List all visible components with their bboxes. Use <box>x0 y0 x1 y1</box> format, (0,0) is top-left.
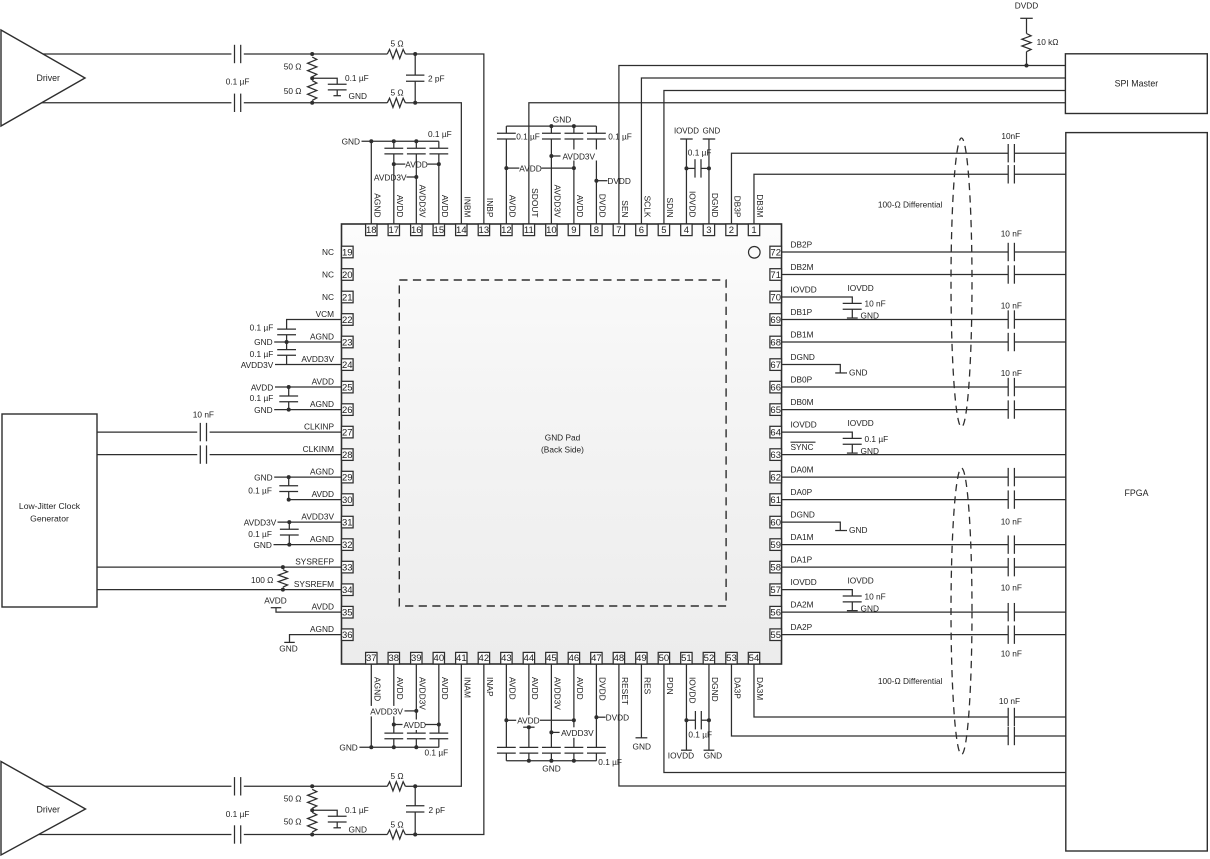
capacitor 10nF CLKINP <box>199 423 201 441</box>
svg-text:0.1 µF: 0.1 µF <box>608 132 632 142</box>
node INA mid <box>310 808 314 812</box>
capacitor 10nF DA1P <box>1007 558 1009 576</box>
capacitor 10nF DA0M <box>1007 468 1009 486</box>
capacitor 10nF DA1M <box>1007 535 1009 553</box>
svg-text:27: 27 <box>342 427 353 438</box>
svg-text:AVDD: AVDD <box>264 596 286 606</box>
pin 34 box <box>342 584 354 596</box>
pin 12 box <box>501 224 512 236</box>
pin 1 box <box>748 224 759 236</box>
pin 50 box <box>658 652 669 664</box>
wire resistor to DVDD <box>1026 18 1028 33</box>
svg-text:NC: NC <box>322 292 334 302</box>
resistor 5ohm INB- <box>387 98 405 107</box>
wire DGND pin to ground <box>782 522 841 530</box>
wire cap17 to AVDD rail <box>393 154 395 164</box>
svg-text:GND: GND <box>703 127 721 136</box>
svg-text:DB2P: DB2P <box>791 239 813 249</box>
svg-text:DVDD: DVDD <box>598 677 608 701</box>
node INB- junction <box>310 101 314 105</box>
capacitor 0.1uF pins 25/26 <box>288 387 290 396</box>
svg-text:3: 3 <box>706 225 711 236</box>
wire INB+ to 2pF node <box>405 53 415 55</box>
wire cap9 down <box>573 139 575 168</box>
wire pin47 DVDD <box>595 664 597 747</box>
svg-text:50 Ω: 50 Ω <box>284 86 302 96</box>
svg-text:GND: GND <box>861 446 879 456</box>
ground (IOVDD decap) <box>847 610 858 612</box>
capacitor 10nF DA2M <box>1007 603 1009 621</box>
svg-text:0.1 µF: 0.1 µF <box>688 730 712 740</box>
wire DGND pin to ground <box>782 365 841 373</box>
capacitor 10 nF IOVDD decoupling <box>843 595 862 597</box>
node SEN pullup junction <box>1025 64 1029 68</box>
svg-text:66: 66 <box>770 382 781 393</box>
svg-text:10 kΩ: 10 kΩ <box>1037 37 1059 47</box>
svg-text:DB1M: DB1M <box>791 329 814 339</box>
wire SCLK to SPI master <box>641 78 1065 224</box>
capacitor 10nF DA3M <box>1007 708 1009 726</box>
wire SDOUT to SPI master <box>529 103 1066 224</box>
svg-text:GND: GND <box>633 741 651 751</box>
ground (RES) <box>636 737 648 739</box>
wire cap to ground <box>851 309 853 318</box>
pin 8 box <box>591 224 602 236</box>
capacitor 10nF DB3M <box>1007 165 1009 183</box>
wire pin8 DVDD <box>595 181 597 224</box>
svg-text:10 nF: 10 nF <box>193 409 214 419</box>
wire pin3 DGND <box>708 139 710 224</box>
node INB mid <box>310 76 314 80</box>
svg-text:14: 14 <box>456 225 467 236</box>
svg-text:DA3M: DA3M <box>755 677 765 700</box>
svg-text:2: 2 <box>729 225 734 236</box>
pin 38 box <box>388 652 399 664</box>
pin 10 box <box>546 224 557 236</box>
pin 21 box <box>342 291 354 303</box>
resistor 5ohm INA+ <box>387 782 405 791</box>
svg-text:10 nF: 10 nF <box>1001 648 1022 658</box>
svg-text:2 pF: 2 pF <box>428 73 445 83</box>
svg-text:72: 72 <box>770 247 781 258</box>
power IOVDD tap (top) <box>680 138 693 140</box>
capacitor 0.1uF series INB- <box>234 94 236 112</box>
pin 18 box <box>366 224 377 236</box>
svg-text:51: 51 <box>681 653 692 664</box>
svg-text:55: 55 <box>770 630 781 641</box>
svg-text:64: 64 <box>770 427 781 438</box>
pin 37 box <box>366 652 377 664</box>
wire INA+ to 2pF node <box>405 785 415 787</box>
pin 20 box <box>342 269 354 281</box>
wire INA- to 2pF node <box>405 834 415 836</box>
wire DA3M pin54 to FPGA <box>754 664 1008 717</box>
wire cap to ground (INA) <box>336 822 338 828</box>
capacitor 0.1uF series INA+ <box>234 777 236 795</box>
net AVDD3V tap (bottom-middle) <box>549 730 553 734</box>
wire CLKINP from clock gen <box>97 431 197 433</box>
svg-text:DB1P: DB1P <box>791 307 813 317</box>
svg-text:59: 59 <box>770 540 781 551</box>
svg-text:100-Ω Differential: 100-Ω Differential <box>878 200 943 210</box>
svg-text:10 nF: 10 nF <box>999 696 1020 706</box>
pin 2 box <box>726 224 737 236</box>
wire cap to FPGA <box>1014 409 1065 411</box>
svg-text:47: 47 <box>591 653 602 664</box>
wire pin12 AVDD <box>505 168 507 224</box>
pin 29 box <box>342 471 354 483</box>
svg-text:IOVDD: IOVDD <box>848 575 874 585</box>
differential pair ellipse (upper) <box>951 138 972 427</box>
capacitor 10nF DA3P <box>1007 727 1009 745</box>
svg-text:GND: GND <box>861 311 879 321</box>
node 2pF top (INA) <box>413 784 417 788</box>
net AVDD3V rail (bottom-left) <box>370 706 404 717</box>
svg-text:Driver: Driver <box>37 73 61 83</box>
capacitor 0.1uF AVDD3V (pin24 group) <box>286 342 288 350</box>
svg-text:NC: NC <box>322 247 334 257</box>
svg-text:62: 62 <box>770 473 781 484</box>
capacitor 10nF DB0P <box>1007 378 1009 396</box>
wire DB3P pin2 to FPGA <box>731 153 1008 224</box>
svg-text:100 Ω: 100 Ω <box>251 575 273 585</box>
svg-text:DA2M: DA2M <box>791 600 814 610</box>
svg-text:DA1M: DA1M <box>791 532 814 542</box>
op-amp driver (top input driver) <box>1 30 85 126</box>
net AVDD3V tap (top-middle) <box>549 154 553 158</box>
svg-text:INBP: INBP <box>485 198 495 218</box>
svg-text:52: 52 <box>704 653 715 664</box>
wire IOVDD pin to cap <box>782 590 853 596</box>
svg-text:GND: GND <box>342 136 360 146</box>
junction SYSREFM-100ohm <box>281 588 285 592</box>
pin 13 box <box>478 224 489 236</box>
junction AVDD3V cap (pin31) <box>287 520 291 524</box>
wire DB2M pin71 to FPGA <box>782 274 1009 276</box>
wire INA- from driver <box>39 834 231 836</box>
wire INAM to pin 41 <box>415 664 461 786</box>
pin 4 box <box>681 224 692 236</box>
svg-text:AGND: AGND <box>310 624 334 634</box>
wire cap16 to AVDD3V node <box>415 154 417 177</box>
capacitor 0.1uF on AVDD pin17 <box>384 147 403 149</box>
svg-text:36: 36 <box>342 630 353 641</box>
wire DB3P cap to FPGA <box>1014 152 1065 154</box>
wire CLKINP to pin 27 <box>210 431 342 433</box>
wire cap to FPGA <box>1014 634 1065 636</box>
svg-text:10nF: 10nF <box>1001 131 1020 141</box>
svg-text:SDOUT: SDOUT <box>530 188 540 217</box>
svg-text:70: 70 <box>770 292 781 303</box>
svg-text:68: 68 <box>770 337 781 348</box>
svg-text:IOVDD: IOVDD <box>791 577 817 587</box>
capacitor 0.1uF on pin9 AVDD <box>564 132 583 134</box>
node 2pF bottom (INA) <box>413 833 417 837</box>
svg-text:43: 43 <box>501 653 512 664</box>
wire INB- from driver <box>42 102 232 104</box>
wire PDN pin50 to FPGA <box>664 664 1066 773</box>
net AVDD rail (top-left) <box>392 162 396 166</box>
net DVDD tap (bottom-middle) <box>594 715 598 719</box>
svg-text:50 Ω: 50 Ω <box>284 816 302 826</box>
node INA+ junction <box>310 784 314 788</box>
svg-text:DB3P: DB3P <box>733 196 743 218</box>
svg-text:INAP: INAP <box>485 677 495 697</box>
svg-text:23: 23 <box>342 337 353 348</box>
capacitor 10nF DB2P <box>1007 243 1009 261</box>
svg-text:DGND: DGND <box>791 352 815 362</box>
svg-text:AGND: AGND <box>310 467 334 477</box>
wire pin37 AGND <box>370 664 372 747</box>
svg-text:AVDD: AVDD <box>440 677 450 700</box>
svg-text:0.1 µF: 0.1 µF <box>250 349 274 359</box>
svg-text:GND: GND <box>553 115 571 125</box>
wire pin43 AVDD <box>505 664 507 747</box>
junction cap16 top <box>414 139 418 143</box>
svg-text:10 nF: 10 nF <box>1001 368 1022 378</box>
pin 59 box <box>770 539 782 551</box>
svg-text:50 Ω: 50 Ω <box>284 62 302 72</box>
svg-text:10 nF: 10 nF <box>1001 516 1022 526</box>
wire pin 30 AVDD <box>289 499 342 501</box>
pin 58 box <box>770 561 782 573</box>
GND pad (back side) outline <box>399 280 726 606</box>
pin 49 box <box>636 652 647 664</box>
svg-text:IOVDD: IOVDD <box>674 127 699 136</box>
net DVDD tap (top-middle) <box>594 179 598 183</box>
node INA- junction <box>310 833 314 837</box>
svg-text:5 Ω: 5 Ω <box>390 39 403 49</box>
svg-text:Low-Jitter Clock: Low-Jitter Clock <box>19 501 81 511</box>
wire DA2M pin56 to FPGA <box>782 611 1009 613</box>
capacitor 0.1uF INA mid to GND <box>328 815 347 817</box>
svg-text:38: 38 <box>389 653 400 664</box>
junction cap9 top <box>572 124 576 128</box>
svg-text:63: 63 <box>770 450 781 461</box>
svg-text:AVDD3V: AVDD3V <box>370 706 403 716</box>
svg-text:AVDD3V: AVDD3V <box>553 185 563 218</box>
resistor 5ohm INB+ <box>387 49 405 58</box>
svg-text:GND Pad: GND Pad <box>545 433 581 443</box>
ground (INB mid) <box>333 95 341 97</box>
svg-text:AVDD: AVDD <box>575 677 585 700</box>
capacitor 2pF (INA) <box>414 786 416 806</box>
wire cap8 down <box>595 139 597 181</box>
svg-text:18: 18 <box>366 225 377 236</box>
wire DB2P pin72 to FPGA <box>782 251 1009 253</box>
svg-text:30: 30 <box>342 495 353 506</box>
svg-text:AGND: AGND <box>310 534 334 544</box>
svg-text:0.1 µF: 0.1 µF <box>248 486 272 496</box>
svg-text:19: 19 <box>342 247 353 258</box>
wire cap15 to AVDD rail <box>438 154 440 164</box>
svg-text:AVDD3V: AVDD3V <box>563 151 596 161</box>
wire pin40 AVDD <box>438 664 440 733</box>
pin 28 box <box>342 449 354 461</box>
svg-text:GND: GND <box>849 368 867 378</box>
pin 19 box <box>342 246 354 258</box>
svg-text:71: 71 <box>770 270 781 281</box>
svg-text:GND: GND <box>339 743 357 753</box>
capacitor 10nF DB1P <box>1007 310 1009 328</box>
wire pin9 AVDD <box>573 168 575 224</box>
svg-text:SCLK: SCLK <box>643 196 653 218</box>
svg-text:SEN: SEN <box>620 200 630 217</box>
svg-text:0.1 µF: 0.1 µF <box>516 132 540 142</box>
capacitor 0.1uF on pin8 DVDD <box>587 132 606 134</box>
svg-text:SPI Master: SPI Master <box>1115 79 1159 89</box>
capacitor 0.1uF pin44 <box>519 746 538 748</box>
svg-text:11: 11 <box>524 225 534 236</box>
svg-text:32: 32 <box>342 540 353 551</box>
svg-text:AVDD3V: AVDD3V <box>418 677 428 710</box>
svg-text:SYNC: SYNC <box>791 442 814 452</box>
pin 22 box <box>342 314 354 326</box>
pin 64 box <box>770 426 782 438</box>
wire pin52 DGND <box>708 664 710 750</box>
pin 42 box <box>478 652 489 664</box>
svg-text:AVDD: AVDD <box>312 489 334 499</box>
wire INB- to 50ohm node <box>244 102 387 104</box>
svg-text:AVDD3V: AVDD3V <box>553 677 563 710</box>
svg-text:10 nF: 10 nF <box>1001 582 1022 592</box>
wire VCM pin22 to cap <box>287 320 342 330</box>
wire DA3P cap to FPGA <box>1014 735 1065 737</box>
junction AVDD cap (pin30) <box>287 498 291 502</box>
ground (DGND) <box>835 372 845 374</box>
wire cap39 to GND rail <box>415 739 417 748</box>
wire DA0M pin62 to FPGA <box>782 476 1009 478</box>
pin 25 box <box>342 381 354 393</box>
wire cap to FPGA <box>1014 274 1065 276</box>
wire DA0P pin61 to FPGA <box>782 499 1009 501</box>
wire pullup to resistor <box>1026 52 1028 66</box>
capacitor 0.1uF IOVDD-DGND (top) <box>686 167 695 169</box>
junction cap left (pin4) <box>684 166 688 170</box>
node 2pF top <box>413 52 417 56</box>
svg-text:49: 49 <box>636 653 647 664</box>
pin 1 indicator circle <box>749 247 761 259</box>
pin 3 box <box>703 224 714 236</box>
wire cap to FPGA <box>1014 499 1065 501</box>
svg-text:AVDD: AVDD <box>517 716 539 726</box>
svg-text:9: 9 <box>571 225 576 236</box>
svg-text:Driver: Driver <box>37 805 61 815</box>
net AVDD rail (bottom-left) <box>392 723 396 727</box>
svg-text:AVDD3V: AVDD3V <box>244 518 277 528</box>
svg-text:DB2M: DB2M <box>791 262 814 272</box>
wire mid node to 0.1uF cap (INA) <box>312 810 337 816</box>
wire DA1M pin59 to FPGA <box>782 544 1009 546</box>
wire stub cap17 <box>393 141 395 148</box>
svg-text:1: 1 <box>751 225 756 236</box>
pin 15 box <box>433 224 444 236</box>
svg-text:AVDD3V: AVDD3V <box>374 173 407 183</box>
svg-text:20: 20 <box>342 270 353 281</box>
svg-text:DVDD: DVDD <box>607 176 631 186</box>
capacitor 10nF DA2P <box>1007 625 1009 643</box>
svg-text:12: 12 <box>501 225 512 236</box>
pin 48 box <box>613 652 624 664</box>
resistor 10k pullup <box>1022 34 1031 52</box>
svg-text:40: 40 <box>434 653 445 664</box>
svg-text:2 pF: 2 pF <box>429 805 446 815</box>
wire IOVDD pin to cap <box>782 432 853 438</box>
pin 67 box <box>770 359 782 371</box>
svg-text:GND: GND <box>349 824 367 834</box>
ground GND tap (top) <box>703 138 716 140</box>
svg-text:AVDD: AVDD <box>404 720 426 730</box>
svg-text:INBM: INBM <box>463 197 473 218</box>
svg-text:0.1 µF: 0.1 µF <box>425 747 449 757</box>
svg-text:GND: GND <box>253 540 271 550</box>
capacitor 0.1uF on AVDD pin15 <box>429 147 448 149</box>
SPI Master box <box>1065 54 1207 114</box>
capacitor 0.1uF VCM <box>277 328 296 330</box>
wire cap to ground <box>336 90 338 96</box>
wire cap to ground <box>851 602 853 611</box>
box low-jitter clock generator <box>2 414 97 607</box>
pin 51 box <box>681 652 692 664</box>
wire DB1M pin68 to FPGA <box>782 341 1009 343</box>
junction cap52 <box>707 718 711 722</box>
resistor 100ohm SYSREF termination <box>278 570 287 588</box>
svg-text:56: 56 <box>770 608 781 619</box>
pin 16 box <box>411 224 422 236</box>
wire caps to GND rail (bottom-middle) <box>505 753 507 761</box>
wire DB0P pin66 to FPGA <box>782 386 1009 388</box>
svg-text:DGND: DGND <box>710 677 720 702</box>
power tap AVDD on pin44 <box>523 726 534 728</box>
svg-text:69: 69 <box>770 315 781 326</box>
pin 7 box <box>613 224 624 236</box>
svg-text:IOVDD: IOVDD <box>791 419 817 429</box>
ground GND tap (bottom) <box>704 749 715 751</box>
svg-text:58: 58 <box>770 563 781 574</box>
wire pin38 AVDD <box>393 664 395 733</box>
pin 41 box <box>456 652 467 664</box>
wire VCM cap to GND node <box>286 335 288 342</box>
wire cap12 down <box>505 139 507 168</box>
pin 5 box <box>658 224 669 236</box>
svg-text:AVDD: AVDD <box>395 677 405 700</box>
capacitor 0.1uF IOVDD-DGND (bottom) <box>686 719 695 721</box>
svg-text:DVDD: DVDD <box>1015 0 1039 10</box>
svg-text:DGND: DGND <box>710 193 720 218</box>
wire INA+ to 50ohm node <box>244 785 387 787</box>
svg-text:RESET: RESET <box>620 677 630 705</box>
wire cap to FPGA <box>1014 386 1065 388</box>
svg-text:FPGA: FPGA <box>1125 488 1149 498</box>
wire pin44 AVDD <box>528 664 530 747</box>
wire SEN to SPI master <box>619 66 1065 225</box>
capacitor 2pF (INB) <box>414 54 416 75</box>
capacitor 10nF DB1M <box>1007 333 1009 351</box>
svg-text:5 Ω: 5 Ω <box>390 819 403 829</box>
svg-text:60: 60 <box>770 518 781 529</box>
wire SYSREFP to pin 33 <box>97 566 342 568</box>
svg-text:46: 46 <box>569 653 580 664</box>
svg-text:4: 4 <box>684 225 689 236</box>
wire cap to FPGA <box>1014 341 1065 343</box>
svg-text:IOVDD: IOVDD <box>668 751 694 761</box>
junction AGND cap (pin26) <box>287 408 291 412</box>
wire IOVDD pin to cap <box>782 297 853 303</box>
wire DA3P pin53 to FPGA <box>731 664 1008 736</box>
svg-text:IOVDD: IOVDD <box>791 284 817 294</box>
svg-text:IOVDD: IOVDD <box>848 283 874 293</box>
wire DA1P pin58 to FPGA <box>782 566 1009 568</box>
